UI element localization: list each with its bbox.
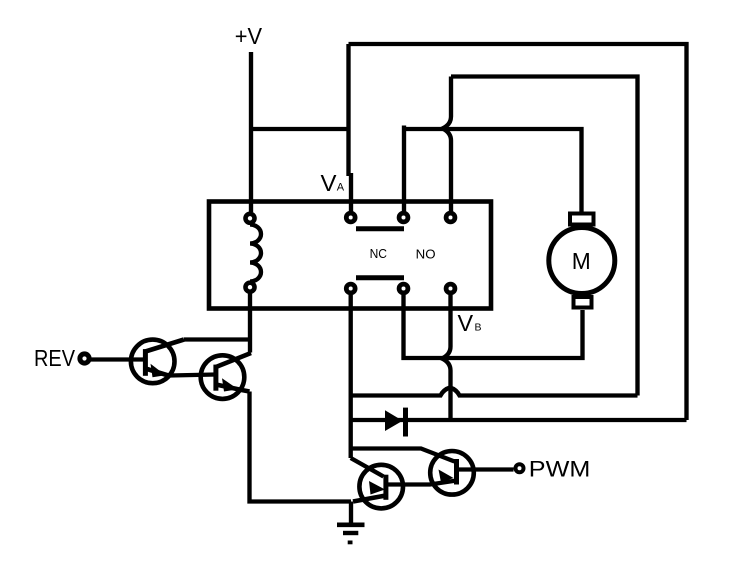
wire motor top to contact column 2 — [404, 126, 582, 213]
wire Q3 base to Q4 emitter — [386, 481, 457, 485]
REV terminal — [80, 354, 89, 363]
svg-text:V: V — [321, 170, 338, 196]
svg-text:+V: +V — [235, 23, 263, 49]
relay contact terminals top row — [346, 213, 455, 222]
relay K1 box — [209, 202, 491, 309]
wire NC-return rail with hop — [351, 388, 638, 396]
relay contact bar top — [356, 226, 404, 231]
wire contact3 bottom vertical with crossover hop — [442, 295, 451, 420]
svg-text:REV: REV — [34, 345, 76, 371]
ground — [337, 502, 365, 543]
wire Q2 emitter down to ground rail — [250, 392, 352, 502]
motor M1 — [549, 214, 615, 308]
transistor Q1 — [131, 340, 184, 384]
wire top rail 1 — [349, 44, 687, 420]
wire contact2 bottom to motor bottom — [404, 295, 583, 358]
wire contact3 top vertical with crossover hop — [443, 77, 452, 212]
wire diode rail — [351, 418, 687, 422]
svg-text:V: V — [458, 310, 474, 336]
wire contact1 top vertical — [349, 44, 352, 212]
svg-text:NO: NO — [416, 246, 436, 261]
wire REV to Q1 base — [90, 357, 145, 361]
transistor Q4 — [430, 451, 474, 495]
wire Q1 collector to coil bottom — [184, 294, 250, 353]
svg-text:B: B — [475, 321, 482, 333]
svg-text:NC: NC — [370, 246, 387, 261]
wire Q1 emitter to Q2 base — [170, 375, 216, 376]
wire contact1 bottom vertical — [349, 295, 353, 458]
svg-text:A: A — [337, 182, 345, 194]
wire Q4 base to PWM terminal — [457, 467, 514, 471]
label VB — [458, 310, 482, 336]
label VA — [321, 170, 345, 196]
relay contact bar bottom — [356, 275, 404, 280]
relay contact terminals bottom row — [346, 284, 455, 293]
wire +V branch to contact column 1 — [251, 127, 349, 131]
+V wire — [249, 52, 253, 212]
svg-text:PWM: PWM — [529, 457, 591, 482]
PWM terminal — [516, 464, 524, 472]
transistor Q2 — [201, 353, 251, 399]
transistor Q3 — [353, 465, 403, 509]
wire top rail 2 — [451, 77, 638, 396]
wire node to Q3 collector — [351, 458, 384, 477]
relay coil — [246, 214, 262, 292]
diode D1 — [385, 408, 406, 437]
wire collector node down left side — [351, 449, 455, 462]
svg-text:M: M — [572, 248, 591, 274]
